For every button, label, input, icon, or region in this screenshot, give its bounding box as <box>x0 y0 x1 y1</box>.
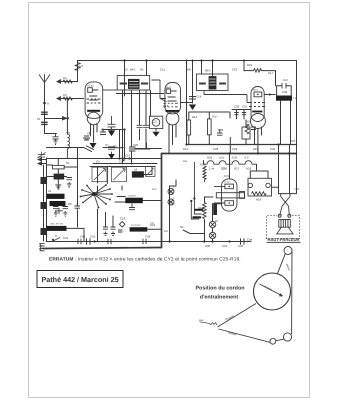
node dots mid <box>120 130 130 159</box>
wire detector links <box>189 112 230 145</box>
coil L14 self <box>213 204 217 215</box>
cord spring to pulley P3 <box>219 329 271 342</box>
wire T2 pin drops <box>169 124 176 154</box>
terminal arrow A2 <box>57 97 61 101</box>
wire top HT bus <box>78 60 297 62</box>
capacitor C1 <box>41 112 48 114</box>
svg-text:R14: R14 <box>183 160 188 163</box>
svg-text:CBL6: CBL6 <box>252 89 259 92</box>
resistor R21 <box>203 166 206 182</box>
svg-text:R28: R28 <box>246 167 252 171</box>
wire decoupling vertical <box>192 61 194 104</box>
svg-text:CV: CV <box>119 160 123 164</box>
svg-text:MF1: MF1 <box>130 68 136 72</box>
svg-text:L8: L8 <box>134 167 138 171</box>
resistor R19 <box>252 192 267 196</box>
svg-text:HAUT-PARLEUR: HAUT-PARLEUR <box>268 237 300 242</box>
svg-text:C28: C28 <box>213 147 219 151</box>
capacitor C43 <box>143 239 146 244</box>
ground G7 solid <box>108 130 115 136</box>
coil MF2 windings <box>209 76 217 89</box>
svg-text:R10: R10 <box>150 223 156 227</box>
ground G3 <box>55 185 61 189</box>
DIALCORD <box>200 247 293 345</box>
coil block L9 <box>47 194 65 199</box>
variable capacitor CV2 <box>112 167 127 182</box>
svg-text:R6: R6 <box>68 202 72 206</box>
box C25-R19 <box>248 178 272 196</box>
wire IF secondary drops <box>140 91 147 149</box>
svg-text:1,4v: 1,4v <box>209 167 215 171</box>
wire bottom caps feed <box>87 239 245 244</box>
svg-text:R16: R16 <box>192 115 198 119</box>
svg-text:4,5v: 4,5v <box>219 156 225 160</box>
svg-text:R17: R17 <box>213 115 219 119</box>
coil L8 padder <box>132 171 144 177</box>
wire gang bus upper <box>93 163 157 165</box>
svg-text:R25: R25 <box>247 63 253 67</box>
wire C7 feed <box>111 116 113 121</box>
svg-text:C2: C2 <box>63 76 67 80</box>
capacitor C10 gnd <box>67 178 73 188</box>
cord right run <box>291 252 293 335</box>
capacitor C26e <box>266 183 270 187</box>
coil MF1 windings <box>128 79 140 89</box>
tube V3 base <box>250 114 265 129</box>
wire bottom right link <box>279 193 297 195</box>
svg-text:6M7: 6M7 <box>166 86 172 90</box>
coil block L10 <box>50 201 66 206</box>
wire heater run end <box>203 161 205 165</box>
transformer TR primary <box>276 96 292 101</box>
tube V4 cathode bar <box>216 193 244 198</box>
wire pickup feed <box>193 162 195 199</box>
lamp LP2 <box>209 232 215 238</box>
wire transformer top loop <box>277 86 292 96</box>
wire IF link <box>116 93 164 95</box>
capacitor C6 <box>100 129 106 135</box>
wire coil L11 links <box>46 228 84 241</box>
chassis hatch left <box>40 244 45 251</box>
capacitor C21a <box>137 125 149 127</box>
svg-text:C1: C1 <box>37 117 41 121</box>
svg-text:OSC. PO-GO: OSC. PO-GO <box>50 223 64 226</box>
svg-text:C6: C6 <box>101 128 105 132</box>
resistor R3 <box>63 97 73 100</box>
svg-text:C45: C45 <box>222 244 228 248</box>
svg-text:R12: R12 <box>183 147 189 151</box>
wire plate resistor line <box>244 70 275 72</box>
resistor R1 <box>75 63 80 71</box>
svg-text:C47: C47 <box>283 78 289 82</box>
capacitor C20 <box>129 147 136 151</box>
wire osc mid links <box>46 165 77 177</box>
wire bottom return line <box>47 241 252 243</box>
trimmer MF1 right <box>141 83 148 85</box>
tube V1 grid dashes <box>87 99 101 103</box>
wire arrow row 1 <box>57 81 78 83</box>
svg-text:C33: C33 <box>218 128 224 132</box>
wire V4 anode stubs <box>214 186 225 203</box>
IF can MF2 <box>197 74 229 91</box>
tube V2 grid dashes <box>164 103 178 107</box>
tube V3 inner grid box <box>254 92 262 97</box>
svg-text:C23: C23 <box>120 217 126 221</box>
pulley P2 <box>283 333 291 341</box>
svg-text:L9: L9 <box>48 189 52 193</box>
capacitor C12 gnd <box>53 207 59 217</box>
svg-text:R1: R1 <box>80 64 84 68</box>
resistor R16 detector <box>187 120 191 135</box>
wire MF1 feed through <box>125 61 147 97</box>
svg-text:C8: C8 <box>113 145 117 149</box>
capacitor C51 terminal <box>41 202 48 209</box>
junction dot grid <box>122 147 124 149</box>
variable capacitor CT2 <box>38 152 46 160</box>
switch S1 arm 1 <box>84 146 94 152</box>
capacitor C8 <box>108 147 115 154</box>
svg-text:S4: S4 <box>180 225 184 229</box>
wire speaker leads crossed <box>281 194 290 197</box>
wire T3 pin drops <box>255 127 262 154</box>
wire right border vertical <box>296 61 298 194</box>
speaker cone <box>277 227 293 234</box>
svg-text:ERRATUM : Insérer « R32 » ent: ERRATUM : Insérer « R32 » entre les cath… <box>49 257 241 263</box>
svg-text:CV: CV <box>96 160 100 164</box>
capacitor C33 <box>217 129 223 135</box>
tube V4 CY2 envelope <box>222 179 238 211</box>
trimmer MF2 right <box>219 83 226 85</box>
svg-text:R13: R13 <box>152 188 157 191</box>
wire speaker primary drops <box>281 101 291 145</box>
tube V1 inner grid box <box>88 88 93 93</box>
ground G9 solid <box>152 132 159 137</box>
svg-text:C41: C41 <box>63 236 69 240</box>
wire switch spur <box>183 230 204 234</box>
svg-text:0,9: 0,9 <box>245 156 249 160</box>
svg-text:Axe: Axe <box>199 319 204 322</box>
wire output feed stub <box>243 61 245 71</box>
tiny schematic labels <box>37 63 300 248</box>
wire rectifier cathode link <box>213 203 222 205</box>
svg-text:A: A <box>47 102 49 106</box>
wire star to gang drop <box>97 166 99 183</box>
switch box S2 <box>52 165 64 169</box>
capacitor C26 gnd <box>118 230 123 232</box>
drum tuning pulley <box>254 273 291 310</box>
wire gang bottoms <box>98 186 123 193</box>
ground G2 solid <box>189 105 196 111</box>
svg-text:S: S <box>55 234 57 238</box>
svg-text:R19: R19 <box>256 198 262 202</box>
wire volume top link <box>170 180 213 197</box>
svg-text:C48: C48 <box>282 90 288 94</box>
SPEAKER <box>266 194 299 239</box>
svg-text:Position du cordon: Position du cordon <box>195 286 244 292</box>
switch S4 <box>52 238 60 242</box>
wire left input column <box>57 158 59 188</box>
svg-text:C32: C32 <box>270 147 276 151</box>
wire IF coupling vertical <box>147 91 157 149</box>
terminal arrow A1 <box>57 80 61 84</box>
svg-text:C43: C43 <box>145 235 151 239</box>
capacitor C30 <box>234 113 238 115</box>
svg-text:C14: C14 <box>196 95 202 99</box>
svg-text:osc: osc <box>66 131 71 135</box>
wire AVC feeder vertical <box>77 61 79 82</box>
tube V1 base <box>87 112 100 125</box>
SCHEMATIC_PARTS <box>38 59 292 250</box>
wire bottom components row <box>46 241 140 243</box>
wire MF2 sec out <box>204 91 251 103</box>
antenna <box>39 74 50 89</box>
resistor R2 <box>63 80 73 83</box>
wire MF2 top stubs <box>202 61 213 77</box>
wire AVC bus <box>47 158 162 160</box>
cord pulley to drum <box>278 254 286 274</box>
capacitor C23 diamond <box>119 222 125 228</box>
svg-text:R5: R5 <box>140 68 144 72</box>
tube V2 inner grid box <box>166 89 170 93</box>
svg-text:ACCORD: ACCORD <box>131 224 141 227</box>
pickup terminals PU <box>191 200 201 220</box>
wire detector row link <box>135 148 162 150</box>
svg-text:R30: R30 <box>205 244 211 248</box>
wire T2 plate line <box>181 102 193 104</box>
variable capacitor CV1 <box>92 167 107 182</box>
svg-text:C36: C36 <box>222 167 228 171</box>
svg-text:C19: C19 <box>125 154 131 158</box>
tube V2 base <box>166 112 179 125</box>
tube V1 cathode bar <box>87 110 100 112</box>
svg-text:C29: C29 <box>232 147 238 151</box>
capacitor C25e <box>248 183 252 187</box>
coil L6 <box>54 174 65 180</box>
svg-text:R15: R15 <box>253 147 259 151</box>
wire star bottom drops <box>98 209 114 242</box>
resistor R25 <box>254 69 262 73</box>
lamp LP1 <box>209 221 215 227</box>
wire left border vertical <box>46 158 48 242</box>
terminal T1 lamp <box>168 189 174 195</box>
svg-text:+HT: +HT <box>294 187 300 191</box>
wire left border inner <box>43 165 45 241</box>
svg-text:6,3v: 6,3v <box>232 156 238 160</box>
drum pointer arrow <box>260 284 283 296</box>
resistor R22 potentiometer <box>203 203 207 219</box>
cord pulley link <box>276 339 284 341</box>
svg-text:6C42: 6C42 <box>88 85 95 88</box>
wire R19 box feed <box>250 171 278 187</box>
svg-text:C42: C42 <box>90 235 96 239</box>
svg-text:C31: C31 <box>242 105 248 109</box>
trimmer CT1 <box>55 208 63 214</box>
capacitor C9 gnd <box>53 133 59 144</box>
svg-text:C7: C7 <box>105 143 109 147</box>
svg-text:C5: C5 <box>87 132 91 136</box>
wire padder link <box>144 166 152 174</box>
wire heavy chassis bus <box>162 153 297 155</box>
svg-text:C4: C4 <box>124 68 128 72</box>
tube V3 cathode bar <box>252 111 262 113</box>
bar contact 1 <box>195 209 204 211</box>
wire osc feeder <box>77 148 79 228</box>
wire band line left <box>47 147 116 149</box>
tube V1 envelope <box>85 82 103 118</box>
wire heavy bottom border <box>43 248 162 249</box>
tube V2 cathode bar <box>166 110 180 112</box>
wire gang bus lower <box>90 166 155 168</box>
wire grid return column <box>66 99 68 121</box>
wire mid verticals <box>102 130 124 159</box>
wire B+ bus <box>187 144 297 146</box>
wire heavy vertical border <box>161 154 163 248</box>
svg-text:R26: R26 <box>207 156 213 160</box>
svg-text:C46: C46 <box>238 244 244 248</box>
wire lamp string <box>212 204 214 242</box>
tube V3 grid dashes <box>249 103 265 107</box>
capacitor C14 <box>189 93 196 99</box>
capacitor C52 terminal <box>41 228 48 235</box>
resistor R24 cathode <box>245 124 249 134</box>
wire HT verticals to speaker <box>279 145 290 194</box>
wire lamp chain vertical <box>169 186 171 242</box>
resistor R17 <box>208 119 212 135</box>
svg-text:R27: R27 <box>234 167 240 171</box>
wire tone box drop <box>230 120 246 154</box>
svg-text:C17: C17 <box>268 71 274 75</box>
pulley P1 top <box>284 247 292 255</box>
spring anchor <box>200 322 218 325</box>
capacitor C7 <box>108 121 116 130</box>
svg-text:MF2: MF2 <box>205 69 211 73</box>
svg-text:C11: C11 <box>160 68 165 72</box>
svg-text:REG: REG <box>198 206 204 210</box>
tube V4 anode plates <box>225 184 234 189</box>
svg-text:C44: C44 <box>247 238 253 242</box>
capacitor C15 gnd <box>63 207 69 217</box>
terminal T2 lamp <box>168 199 174 205</box>
capacitor C22 <box>129 204 135 210</box>
bar contact 2 <box>193 216 202 218</box>
coil L5 osc <box>67 134 69 148</box>
coil block L13 <box>130 227 148 231</box>
svg-text:C13: C13 <box>163 104 169 108</box>
wire transformer left drop <box>275 71 277 86</box>
wire diode caps row <box>232 110 251 119</box>
capacitor C35 <box>75 203 81 212</box>
capacitor C31 <box>242 113 246 115</box>
capacitor C24 gnd <box>103 227 108 235</box>
voice coil HP <box>279 220 291 228</box>
capacitor C25 gnd <box>111 227 116 235</box>
switch S3 rotary star <box>81 185 113 208</box>
junction dots row <box>122 159 125 161</box>
cord drum to spring <box>218 304 257 328</box>
wire volume feed <box>115 148 150 149</box>
capacitor C38 <box>251 127 256 130</box>
svg-text:R11: R11 <box>164 230 169 233</box>
svg-text:TR: TR <box>293 96 297 100</box>
capacitor C21 can <box>150 116 163 128</box>
wire CY2 anode drop <box>229 154 231 180</box>
wire band branch <box>45 118 63 120</box>
capacitor C42 <box>78 239 81 244</box>
wire star right links <box>115 197 162 230</box>
terminal arrow band <box>63 117 67 120</box>
svg-text:R8: R8 <box>187 68 191 72</box>
svg-text:C30: C30 <box>234 105 240 109</box>
svg-text:R20: R20 <box>290 139 296 143</box>
svg-text:Pathé 442 / Marconi 25: Pathé 442 / Marconi 25 <box>42 275 119 284</box>
wire star up link <box>106 166 108 183</box>
terminal arrow A3 <box>38 158 46 161</box>
pulley P3 <box>270 338 276 344</box>
wire antenna lead-in <box>45 89 57 134</box>
dashed enclosure <box>266 216 299 239</box>
svg-text:CY2: CY2 <box>224 174 230 178</box>
capacitor C2a <box>41 122 48 124</box>
svg-text:C3: C3 <box>63 93 67 97</box>
wire pot vertical <box>204 197 206 242</box>
wire bump row end <box>250 164 268 171</box>
svg-text:R26: R26 <box>200 163 206 167</box>
wire T1 pin drops <box>91 124 98 143</box>
tube V2 envelope <box>165 83 181 114</box>
title box Pathé 442 / Marconi 25 <box>37 271 123 288</box>
tube V3 envelope <box>251 87 264 122</box>
grid cap wire V2 <box>152 80 167 102</box>
wire MF1 bottom drops <box>123 91 132 165</box>
variable capacitor CV3 <box>146 167 156 177</box>
capacitor C5 gnd <box>83 132 90 140</box>
trimmer MF1 left <box>120 83 127 85</box>
svg-text:LP: LP <box>215 219 219 223</box>
svg-text:S2: S2 <box>66 161 70 165</box>
svg-text:C42: C42 <box>80 235 86 239</box>
capacitor C50 terminal <box>41 177 48 184</box>
wire V1 plate out <box>103 89 118 91</box>
node A junction <box>43 102 46 105</box>
trimmer MF2 left <box>199 83 206 85</box>
svg-text:R24: R24 <box>246 120 252 124</box>
svg-text:CY2: CY2 <box>225 181 231 184</box>
capacitor C42b <box>108 239 111 244</box>
ground G8 solid <box>108 154 115 159</box>
box tone <box>242 127 250 139</box>
node speaker terminal 2 <box>288 214 291 217</box>
node speaker terminal 1 <box>278 214 281 217</box>
capacitor C47 <box>282 83 286 89</box>
wire screen feeder vertical <box>186 61 188 145</box>
coil block L11 <box>47 226 67 231</box>
IF can MF1 <box>117 75 150 90</box>
ground G1 solid <box>90 143 97 148</box>
wire arrow row 2 <box>57 98 84 100</box>
svg-text:C36 R9: C36 R9 <box>128 195 136 198</box>
svg-text:R4: R4 <box>85 137 89 141</box>
svg-text:d'entraînement: d'entraînement <box>200 294 239 301</box>
coil block L12 <box>125 198 143 204</box>
choke bump row <box>204 161 257 164</box>
svg-text:C20: C20 <box>133 143 139 147</box>
wire osc coil stubs <box>66 120 68 134</box>
terminal arrow A4 <box>38 162 46 165</box>
svg-text:C16: C16 <box>232 68 238 72</box>
wire CBL6 plate link <box>264 94 275 96</box>
svg-text:C21: C21 <box>152 120 158 124</box>
